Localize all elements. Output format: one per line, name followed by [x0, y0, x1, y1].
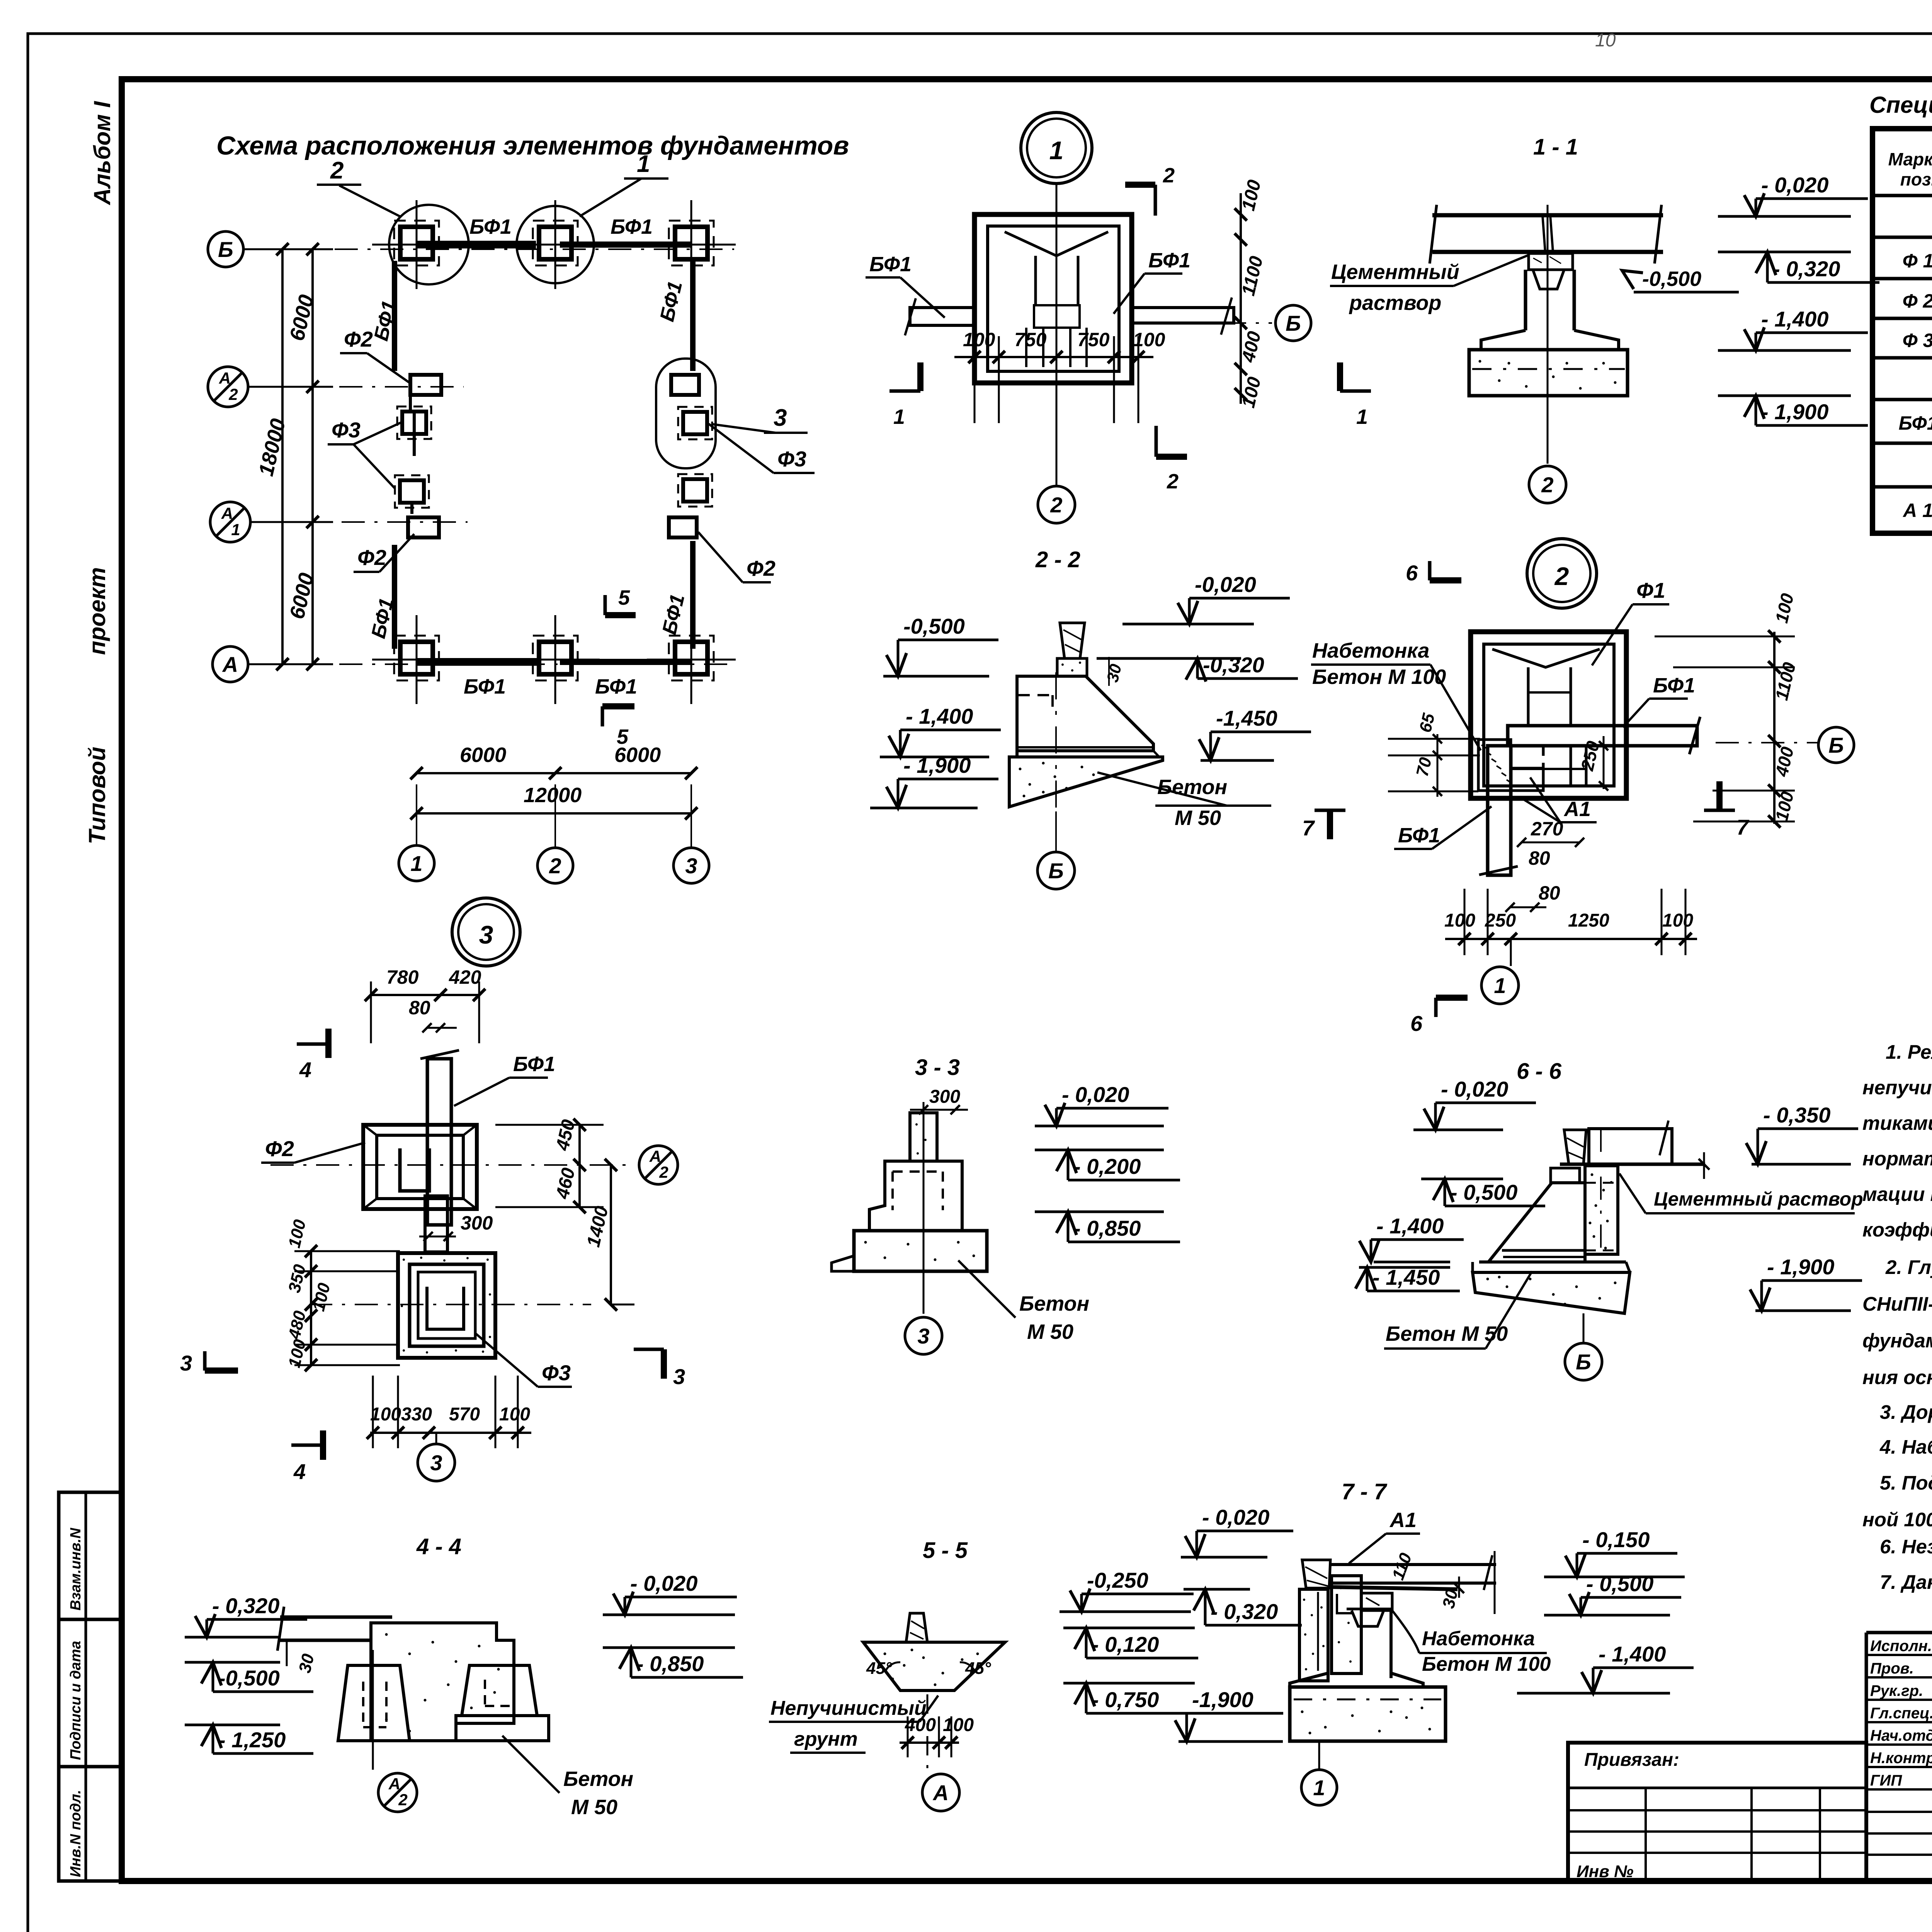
- section 4-4 foot right: [462, 1665, 537, 1716]
- section 7-7 anchor wedge: [1302, 1560, 1330, 1588]
- svg-text:-1,450: -1,450: [1216, 706, 1277, 730]
- svg-text:- 1,400: - 1,400: [1376, 1214, 1444, 1238]
- svg-text:БФ1: БФ1: [1899, 412, 1932, 434]
- svg-text:Марка,: Марка,: [1888, 149, 1932, 169]
- detail 3 callout circle: [452, 898, 520, 966]
- detail 3 right dims 450 460: [578, 1125, 581, 1207]
- detail 3 section marks 3: [203, 1351, 207, 1371]
- svg-text:2: 2: [1167, 470, 1179, 493]
- svg-text:Ф 2: Ф 2: [1903, 290, 1932, 312]
- svg-text:4: 4: [299, 1058, 311, 1082]
- svg-text:Набетонка: Набетонка: [1422, 1628, 1535, 1650]
- svg-text:А: А: [388, 1775, 400, 1793]
- svg-text:Инв.N подл.: Инв.N подл.: [68, 1790, 84, 1877]
- svg-text:7: 7: [1302, 816, 1315, 840]
- section 6-6 beam: [1589, 1129, 1672, 1164]
- svg-text:- 0,850: - 0,850: [1073, 1216, 1141, 1240]
- svg-text:2: 2: [1050, 493, 1062, 517]
- detail 1 axis vertical: [1056, 184, 1058, 485]
- svg-text:Набетонка: Набетонка: [1312, 639, 1429, 662]
- svg-text:Альбом I: Альбом I: [89, 101, 115, 206]
- detail 2 beam BF1 right: [1508, 726, 1697, 746]
- svg-text:БФ1: БФ1: [611, 215, 653, 238]
- svg-text:4 - 4: 4 - 4: [416, 1534, 461, 1559]
- plan beams BF1 row A: [417, 658, 538, 666]
- svg-text:-0,020: -0,020: [1195, 572, 1256, 597]
- section 4-4 base right: [456, 1716, 549, 1741]
- svg-text:фундаментов должны уточнят: фундаментов должны уточняться в соответс…: [1862, 1330, 1932, 1352]
- section 1-1 column cup: [1533, 270, 1564, 289]
- svg-text:3: 3: [479, 920, 493, 949]
- svg-text:Бетон М 100: Бетон М 100: [1312, 665, 1446, 689]
- svg-text:- 0,500: - 0,500: [1450, 1180, 1517, 1204]
- svg-text:А1: А1: [1563, 798, 1591, 821]
- svg-text:- 0,320: - 0,320: [212, 1594, 279, 1618]
- plan bottom dimensions: [417, 772, 691, 774]
- svg-text:420: 420: [449, 966, 481, 988]
- detail 2 outer square: [1471, 632, 1626, 798]
- svg-text:коэффициент безопасности п: коэффициент безопасности по грунту Кг= 1…: [1862, 1219, 1932, 1241]
- detail 2 right dims: [1773, 632, 1776, 824]
- svg-text:Инв №: Инв №: [1577, 1862, 1633, 1881]
- svg-text:БФ1: БФ1: [1653, 674, 1695, 697]
- svg-text:250: 250: [1485, 910, 1516, 931]
- section 4-4 big block: [371, 1623, 514, 1741]
- section 6-6 column hatched: [1585, 1166, 1618, 1254]
- section 4-4 axis: [372, 1650, 374, 1770]
- svg-text:М 50: М 50: [1175, 806, 1221, 830]
- plan axis circle 1: [399, 845, 434, 881]
- svg-text:100: 100: [499, 1404, 530, 1425]
- svg-text:100: 100: [943, 1715, 974, 1735]
- svg-text:Гл.спец.: Гл.спец.: [1870, 1705, 1932, 1722]
- svg-text:3: 3: [774, 405, 787, 431]
- svg-text:- 0,500: - 0,500: [1586, 1571, 1653, 1596]
- plan F3 block col1 lower: [400, 480, 424, 503]
- detail 3 left dims: [310, 1251, 312, 1365]
- section 1-1 slab: [1432, 213, 1663, 218]
- svg-text:А: А: [221, 504, 233, 522]
- section 7-7 pedestal: [1352, 1611, 1384, 1626]
- svg-text:Рук.гр.: Рук.гр.: [1870, 1682, 1923, 1699]
- svg-text:6. Незамаркированные фундаме: 6. Незамаркированные фундаменты - марки …: [1880, 1536, 1932, 1558]
- svg-text:Б: Б: [1576, 1350, 1591, 1374]
- svg-text:Ф2: Ф2: [747, 556, 776, 580]
- plan axis circle B: [208, 231, 243, 267]
- detail 2 beam BF1 down: [1488, 746, 1511, 875]
- svg-text:нормативное удельное сцепл: нормативное удельное сцепление Сн=2кПА (…: [1862, 1148, 1932, 1170]
- svg-text:3: 3: [180, 1351, 192, 1375]
- detail 1 axis circle 2 bottom: [1038, 486, 1075, 523]
- plan callout 1 top-mid: [517, 206, 594, 283]
- section 3-3 axis: [923, 1102, 925, 1314]
- svg-text:Ф2: Ф2: [357, 545, 386, 570]
- section 7-7 footing: [1290, 1687, 1446, 1741]
- svg-text:6: 6: [1410, 1011, 1423, 1036]
- svg-text:2: 2: [1163, 164, 1175, 187]
- title block signature table: [1866, 1631, 1932, 1634]
- svg-text:100: 100: [370, 1404, 401, 1425]
- detail 2 section marks 7: [1315, 809, 1345, 812]
- svg-text:- 1,900: - 1,900: [1761, 400, 1828, 424]
- section 2-2 anchor wedge: [1060, 623, 1085, 658]
- svg-text:3. Доработку грунта под: 3. Доработку грунта под наклонную грань …: [1880, 1401, 1932, 1423]
- svg-text:БФ1: БФ1: [1148, 249, 1190, 272]
- privyazan box: [1568, 1743, 1866, 1881]
- section 2-2 base plate: [1017, 755, 1159, 759]
- svg-text:4. Набетонки выполнять из: 4. Набетонки выполнять из бетона М 100.: [1879, 1436, 1932, 1458]
- section 1-1 circle 2: [1529, 466, 1566, 503]
- detail 1 beam BF1 right: [1132, 308, 1234, 323]
- svg-text:Ф3: Ф3: [542, 1361, 571, 1385]
- section 6-6 circle B: [1583, 1313, 1585, 1343]
- detail 1 callout circle: [1021, 112, 1092, 184]
- svg-text:5: 5: [617, 725, 629, 748]
- detail 1 column cup: [1005, 232, 1108, 256]
- plan column F1: [675, 642, 707, 674]
- section 3-3 column stub: [910, 1113, 937, 1161]
- svg-text:300: 300: [929, 1087, 960, 1107]
- svg-text:1: 1: [637, 151, 650, 177]
- detail 1 section marks 1: [889, 389, 920, 393]
- svg-text:- 0,020: - 0,020: [1761, 173, 1828, 197]
- svg-text:М 50: М 50: [571, 1796, 617, 1819]
- detail 1 beam BF1 left: [910, 308, 975, 325]
- detail 3 joggle piece: [425, 1196, 447, 1252]
- plan column F1: [539, 642, 571, 674]
- detail 3 axis A/2: [270, 1164, 633, 1166]
- svg-text:- 0,020: - 0,020: [1202, 1505, 1269, 1529]
- plan column F1: [539, 227, 571, 259]
- svg-text:750: 750: [1077, 329, 1110, 350]
- svg-text:- 0,020: - 0,020: [1441, 1077, 1508, 1101]
- svg-text:- 1,400: - 1,400: [1599, 1642, 1666, 1666]
- plan column F1: [400, 227, 433, 259]
- svg-text:45°: 45°: [965, 1659, 991, 1678]
- svg-text:- 0,350: - 0,350: [1763, 1103, 1830, 1127]
- plan section mark 5 top: [604, 595, 607, 615]
- svg-text:-0,250: -0,250: [1087, 1568, 1148, 1592]
- svg-text:- 1,250: - 1,250: [218, 1728, 286, 1752]
- svg-text:330: 330: [401, 1404, 432, 1425]
- svg-text:Бетон: Бетон: [1019, 1292, 1089, 1315]
- svg-text:Привязан:: Привязан:: [1584, 1750, 1679, 1770]
- section 6-6 anchor wedge: [1564, 1130, 1586, 1164]
- svg-text:1: 1: [893, 405, 905, 429]
- section 6-6 axis: [1600, 1129, 1602, 1254]
- plan highlight oval col3: [656, 359, 716, 468]
- svg-text:2: 2: [398, 1791, 407, 1809]
- plan beam BF1 col 1 lower: [392, 545, 397, 649]
- svg-text:Ф 1: Ф 1: [1903, 250, 1932, 272]
- detail 1 right dims: [1240, 193, 1242, 404]
- section 6-6 pedestal trapezoid: [1488, 1183, 1585, 1262]
- svg-text:А: А: [649, 1147, 661, 1165]
- svg-text:-1,900: -1,900: [1192, 1687, 1253, 1712]
- plan axis circle A/1: [210, 502, 250, 542]
- svg-text:Ф2: Ф2: [265, 1136, 294, 1161]
- section 5-5 dims: [900, 1742, 959, 1744]
- svg-text:ния оснований зданий и: ния оснований зданий и сооружений главы …: [1862, 1366, 1932, 1388]
- svg-text:7 - 7: 7 - 7: [1342, 1479, 1388, 1504]
- section 1-1 mortar pad: [1529, 253, 1573, 270]
- detail 3 dim 1400: [610, 1165, 612, 1304]
- svg-text:- 0,850: - 0,850: [636, 1651, 704, 1676]
- detail 2 callout circle: [1527, 539, 1597, 608]
- section 2-2 anchor pad: [1057, 658, 1087, 676]
- svg-text:- 1,400: - 1,400: [1761, 307, 1828, 331]
- svg-text:2: 2: [1541, 473, 1553, 497]
- svg-text:3: 3: [685, 854, 697, 878]
- svg-text:300: 300: [461, 1212, 493, 1234]
- svg-text:ной 100мм.: ной 100мм.: [1862, 1509, 1932, 1531]
- detail 3 F2 plan: [363, 1125, 477, 1209]
- svg-text:270: 270: [1531, 818, 1563, 840]
- svg-text:80: 80: [1539, 882, 1560, 904]
- svg-text:А: А: [932, 1781, 949, 1805]
- detail 3 top dims: [371, 994, 479, 996]
- svg-text:Б: Б: [218, 237, 233, 262]
- svg-text:1. Рельеф территории спокойн: 1. Рельеф территории спокойный, грунтовы…: [1886, 1041, 1932, 1063]
- svg-text:- 0,020: - 0,020: [630, 1571, 697, 1595]
- svg-text:80: 80: [1529, 847, 1550, 869]
- svg-text:1 - 1: 1 - 1: [1533, 134, 1578, 160]
- svg-text:Ф1: Ф1: [1636, 578, 1665, 602]
- section 7-7 nabetonka wedge: [1361, 1593, 1392, 1611]
- svg-text:5 - 5: 5 - 5: [923, 1538, 968, 1563]
- svg-text:4: 4: [293, 1459, 306, 1484]
- svg-text:10: 10: [1595, 30, 1616, 51]
- section 3-3 pedestal: [869, 1161, 962, 1231]
- section 6-6 pedestal pad: [1551, 1168, 1580, 1183]
- svg-text:-0,320: -0,320: [1203, 653, 1264, 677]
- svg-text:грунт: грунт: [794, 1728, 858, 1750]
- svg-text:3: 3: [673, 1364, 685, 1389]
- svg-text:780: 780: [386, 966, 419, 988]
- detail 1 bottom dims: [954, 356, 1153, 358]
- plan axis circle 3: [673, 848, 709, 883]
- detail 1 outer square: [975, 214, 1132, 383]
- svg-text:2: 2: [549, 854, 561, 878]
- svg-text:1250: 1250: [1568, 910, 1609, 931]
- svg-text:- 1,900: - 1,900: [1767, 1255, 1834, 1279]
- plan F3 block col3 lower: [683, 479, 707, 502]
- section 2-2 footing wedge: [1009, 757, 1163, 807]
- svg-text:-0,500: -0,500: [903, 614, 965, 638]
- svg-text:570: 570: [449, 1404, 480, 1425]
- svg-text:Типовой: Типовой: [84, 747, 110, 844]
- svg-text:7. Данные в скобках - для нор: 7. Данные в скобках - для нормативной сн…: [1880, 1571, 1932, 1593]
- svg-text:2: 2: [1554, 562, 1569, 590]
- svg-text:400: 400: [905, 1715, 936, 1735]
- svg-text:Бетон М 100: Бетон М 100: [1422, 1653, 1551, 1675]
- detail 3 F3 plan: [398, 1253, 495, 1358]
- svg-text:Схема расположения элементов: Схема расположения элементов фундаментов: [216, 131, 849, 160]
- svg-text:- 0,750: - 0,750: [1092, 1687, 1159, 1712]
- svg-text:А 1: А 1: [1902, 500, 1932, 521]
- section 3-3 base: [854, 1231, 987, 1271]
- plan F2 block col1 row A/1: [408, 517, 439, 537]
- svg-text:поз.: поз.: [1900, 169, 1932, 189]
- svg-text:проект: проект: [84, 567, 110, 655]
- svg-text:2. Глубина заложения фундаме: 2. Глубина заложения фундаментов назначе…: [1885, 1256, 1932, 1278]
- section 6-6 mortar line: [1560, 1163, 1705, 1166]
- plan beam BF1 col 3 upper: [690, 261, 696, 371]
- svg-text:6000: 6000: [460, 743, 506, 767]
- section 7-7 axis circle 1: [1318, 1741, 1320, 1769]
- plan section mark 5 bottom: [601, 706, 604, 726]
- svg-text:тиками: нормативный угол в: тиками: нормативный угол внутреннего тре…: [1862, 1112, 1932, 1134]
- section 7-7 nabetonka column: [1332, 1576, 1361, 1673]
- svg-text:непучинистые, непросадочные: непучинистые, непросадочные со следующим…: [1862, 1077, 1932, 1099]
- detail 3 bottom dims: [370, 1432, 531, 1434]
- plan F3 block col3 upper: [683, 412, 707, 434]
- svg-text:1: 1: [410, 851, 422, 876]
- svg-text:5: 5: [618, 586, 630, 609]
- section 1-1 level -0.500: [1622, 270, 1643, 289]
- svg-text:-0,500: -0,500: [1642, 267, 1701, 291]
- plan axis lines: [243, 248, 734, 250]
- svg-text:100: 100: [1444, 910, 1475, 931]
- svg-text:БФ1: БФ1: [1398, 824, 1440, 847]
- svg-text:Бетон: Бетон: [1157, 776, 1227, 799]
- detail 3 section marks 4: [297, 1043, 328, 1046]
- svg-text:2: 2: [228, 385, 238, 403]
- plan axis circle A/2: [208, 367, 248, 407]
- section 3-3 circle 3: [905, 1317, 942, 1354]
- spec table grid: [1872, 129, 1932, 533]
- plan axis circle 2: [537, 848, 573, 883]
- section 5-5 trapezoid pit: [863, 1642, 1005, 1690]
- detail 1 axis circle B right: [1132, 322, 1272, 324]
- section 7-7 thick mortar line: [1328, 1587, 1458, 1589]
- section 6-6 footing wedge: [1473, 1272, 1630, 1313]
- detail 2 inner lines: [1542, 746, 1545, 786]
- svg-text:Спецификация к схеме расположе: Спецификация к схеме расположения элемен…: [1869, 92, 1932, 118]
- svg-text:Нач.отд.: Нач.отд.: [1870, 1727, 1932, 1744]
- svg-text:1: 1: [1313, 1776, 1325, 1800]
- svg-text:5. Под фундаментные башмаки: 5. Под фундаментные башмаки устроить пес…: [1880, 1472, 1932, 1494]
- svg-text:Взам.инв.N: Взам.инв.N: [68, 1527, 84, 1611]
- detail 2 bottom dims: [1445, 938, 1697, 940]
- svg-text:3: 3: [430, 1451, 442, 1475]
- svg-text:раствор: раствор: [1349, 291, 1441, 315]
- plan left dimensions: [311, 249, 314, 664]
- svg-text:Подписи и дата: Подписи и дата: [68, 1641, 84, 1760]
- svg-text:Ф2: Ф2: [344, 327, 373, 351]
- plan column F1: [675, 227, 707, 259]
- svg-text:А1: А1: [1389, 1509, 1417, 1532]
- section 2-2 circle B: [1037, 852, 1075, 889]
- svg-text:3: 3: [917, 1324, 929, 1348]
- svg-text:- 0,120: - 0,120: [1092, 1632, 1159, 1656]
- plan callout 2 top-left: [389, 205, 469, 284]
- svg-text:7: 7: [1736, 815, 1750, 839]
- detail 3 circle 3 bottom: [435, 1433, 437, 1444]
- detail 3 beam BF1 vertical: [427, 1059, 451, 1225]
- svg-text:ГИП: ГИП: [1870, 1772, 1902, 1789]
- plan F2 block col3 row A/2: [671, 375, 699, 395]
- section 7-7 beam: [1330, 1563, 1496, 1566]
- section 5-5 circle A: [922, 1774, 959, 1811]
- plan F3 block col1 upper: [402, 412, 426, 434]
- svg-text:2: 2: [659, 1163, 668, 1181]
- section 2-2 pedestal: [1017, 676, 1153, 751]
- section 1-1 axis: [1547, 205, 1549, 464]
- svg-text:Бетон: Бетон: [563, 1767, 633, 1791]
- detail 3 axis through F3: [309, 1304, 591, 1305]
- svg-text:1: 1: [1356, 405, 1368, 429]
- detail 2 cup inside: [1492, 649, 1600, 667]
- svg-text:А: А: [222, 652, 238, 677]
- plan beam BF1 col 1 upper: [392, 261, 397, 371]
- svg-text:100: 100: [963, 329, 995, 350]
- svg-text:Непучинистый: Непучинистый: [770, 1697, 927, 1719]
- svg-text:- 0,320: - 0,320: [1773, 257, 1840, 281]
- detail 2 nabetonka hatched corner: [1478, 740, 1543, 791]
- svg-text:- 1,400: - 1,400: [906, 704, 973, 728]
- section 6-6 base plate: [1479, 1260, 1626, 1264]
- svg-text:2 - 2: 2 - 2: [1035, 547, 1080, 572]
- svg-text:Ф 3: Ф 3: [1903, 330, 1932, 351]
- svg-text:1: 1: [1494, 973, 1506, 998]
- detail 2 section marks 6: [1428, 561, 1432, 580]
- svg-text:6 - 6: 6 - 6: [1517, 1059, 1562, 1084]
- plan callout 3 col3: [713, 424, 776, 433]
- svg-text:- 0,020: - 0,020: [1062, 1082, 1129, 1107]
- svg-text:Ф3: Ф3: [332, 418, 361, 442]
- svg-text:БФ1: БФ1: [869, 253, 912, 276]
- plan beam BF1 col 3 lower: [690, 541, 696, 649]
- svg-text:6: 6: [1406, 561, 1418, 585]
- section 7-7 left post: [1299, 1589, 1328, 1681]
- svg-text:3 - 3: 3 - 3: [915, 1055, 960, 1080]
- section 5-5 anchor: [906, 1613, 927, 1642]
- svg-text:Цементный: Цементный: [1331, 260, 1459, 284]
- detail 2 axis to circle 1: [1510, 939, 1512, 966]
- svg-text:- 0,150: - 0,150: [1582, 1527, 1650, 1552]
- section 4-4 circle A/2: [378, 1773, 417, 1812]
- detail 2 axis circle B: [1716, 742, 1818, 743]
- svg-text:мации нескальных грунтов Е=: мации нескальных грунтов Е=14,7мПА (150к…: [1862, 1183, 1932, 1205]
- svg-text:750: 750: [1014, 329, 1047, 350]
- svg-text:1: 1: [231, 520, 240, 539]
- svg-text:2: 2: [330, 157, 344, 184]
- plan beams BF1 row B: [417, 241, 536, 248]
- detail 1 section marks 2: [1154, 185, 1157, 216]
- svg-text:БФ1: БФ1: [513, 1053, 555, 1076]
- svg-text:Б: Б: [1048, 859, 1064, 883]
- plan F2 block col1 row A/2: [410, 375, 441, 395]
- svg-text:- 0,320: - 0,320: [1211, 1599, 1278, 1624]
- section 4-4 slab left: [280, 1616, 392, 1619]
- svg-text:- 1,900: - 1,900: [903, 753, 971, 777]
- section 4-4 foot left: [338, 1665, 410, 1741]
- svg-text:М 50: М 50: [1027, 1320, 1073, 1344]
- svg-text:- 0,200: - 0,200: [1073, 1154, 1141, 1179]
- plan axis circle A: [213, 646, 248, 682]
- svg-text:Ф3: Ф3: [777, 447, 806, 471]
- svg-text:-0,500: -0,500: [218, 1666, 280, 1690]
- svg-text:1: 1: [1049, 136, 1064, 165]
- svg-text:Н.контр.: Н.контр.: [1870, 1750, 1932, 1767]
- plan F2 block col3 row A/1: [669, 517, 697, 537]
- svg-text:СНиПII-15-74. При других гру: СНиПII-15-74. При других грунтовых услов…: [1862, 1293, 1932, 1315]
- svg-text:Пров.: Пров.: [1870, 1660, 1914, 1677]
- svg-text:80: 80: [409, 997, 430, 1019]
- svg-text:Цементный раствор: Цементный раствор: [1654, 1188, 1863, 1210]
- section 2-2 axis: [1055, 672, 1057, 852]
